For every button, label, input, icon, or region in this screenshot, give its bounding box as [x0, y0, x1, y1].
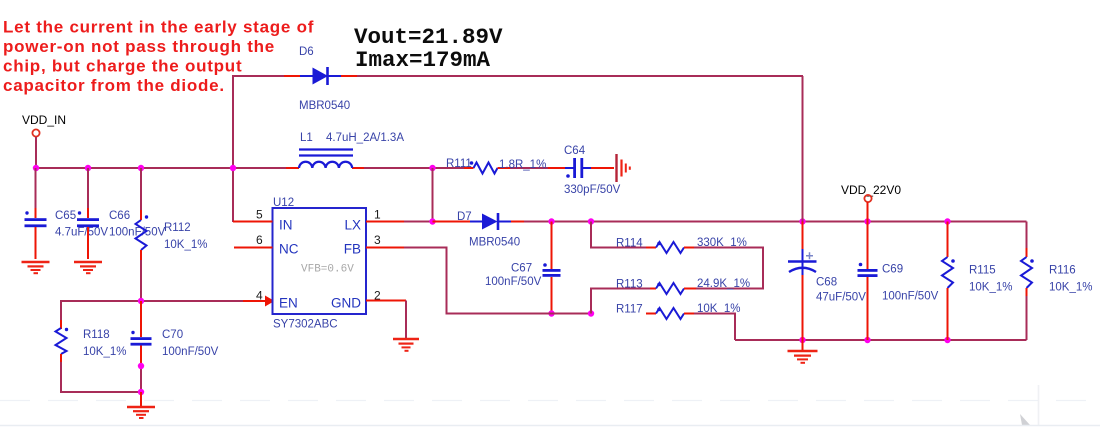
ground under C70 [127, 407, 155, 418]
wire bottom left net [61, 391, 141, 393]
junction dot rail at D6 branch [230, 165, 236, 171]
svg-text:330pF/50V: 330pF/50V [564, 184, 621, 196]
capacitor C69 [858, 222, 878, 341]
svg-text:R117: R117 [616, 304, 643, 316]
svg-text:1: 1 [374, 208, 381, 222]
junction dot C69 bottom [864, 337, 870, 343]
svg-text:IN: IN [279, 218, 293, 233]
svg-text:R114: R114 [616, 238, 643, 250]
wire red leads inductor [286, 167, 299, 169]
svg-text:10K_1%: 10K_1% [164, 239, 207, 251]
svg-text:C64: C64 [564, 145, 586, 157]
wire VDD_22V0 drop [867, 202, 869, 222]
wire EN net horizontal [61, 300, 245, 302]
svg-text:chip, but charge the output: chip, but charge the output [3, 57, 242, 76]
wire R117 right to bottom rail [694, 314, 735, 341]
capacitor C70 [131, 301, 152, 392]
svg-text:R118: R118 [83, 329, 110, 341]
ground under C65 [22, 262, 50, 273]
pin stub GND [366, 300, 406, 302]
svg-text:4: 4 [256, 289, 263, 303]
wire red lead left of D6 [284, 75, 300, 77]
svg-text:1.8R_1%: 1.8R_1% [499, 159, 546, 171]
faint grid line bottom edge [0, 425, 1100, 427]
resistor R111 [464, 161, 510, 173]
junction dot C67 top [548, 218, 554, 224]
faint grid line bottom dashed [0, 400, 1100, 402]
svg-text:R112: R112 [164, 222, 191, 234]
junction dot VDD_22V0 [864, 218, 870, 224]
wire R114 to R113 [684, 248, 763, 289]
svg-text:3: 3 [374, 233, 381, 247]
pin arrow EN [265, 296, 275, 307]
pin stub LX [366, 221, 405, 223]
wire VDD_IN drop [35, 137, 37, 168]
junction dot EN net at R112 [138, 298, 144, 304]
ground under U12 GND [393, 339, 419, 351]
svg-text:24.9K_1%: 24.9K_1% [697, 278, 750, 290]
svg-text:power-on not pass through the: power-on not pass through the [3, 37, 275, 56]
svg-text:C69: C69 [882, 264, 903, 276]
svg-text:MBR0540: MBR0540 [469, 237, 520, 249]
diode D7 [470, 213, 511, 230]
junction dot rail at LX branch [429, 165, 435, 171]
junction dot C67 bottom [548, 310, 554, 316]
svg-text:Imax=179mA: Imax=179mA [355, 47, 491, 73]
capacitor C65 [25, 168, 47, 259]
capacitor C67 [543, 222, 561, 314]
svg-text:SY7302ABC: SY7302ABC [273, 319, 338, 331]
svg-text:5: 5 [256, 208, 263, 222]
svg-text:R111: R111 [446, 158, 472, 170]
wire LX net [404, 168, 433, 222]
svg-text:L1: L1 [300, 132, 313, 144]
svg-text:Let the current in the early s: Let the current in the early stage of [3, 18, 314, 37]
faint vertical artifact bottom right [1038, 385, 1040, 426]
capacitor C68 polarized [788, 222, 817, 341]
wire bottom rail [735, 339, 1027, 341]
junction dot C68 top [799, 218, 805, 224]
svg-text:4.7uF/50V: 4.7uF/50V [55, 227, 108, 239]
svg-text:10K_1%: 10K_1% [969, 282, 1012, 294]
resistor R114 [646, 242, 696, 253]
junction dot R115 top [944, 218, 950, 224]
svg-text:R115: R115 [969, 265, 996, 277]
cursor artifact bottom [1020, 414, 1030, 425]
svg-text:VDD_IN: VDD_IN [22, 113, 66, 127]
svg-text:C67: C67 [511, 263, 532, 275]
svg-text:4.7uH_2A/1.3A: 4.7uH_2A/1.3A [326, 132, 404, 144]
wire LX to D7 [433, 221, 473, 223]
svg-text:VFB=0.6V: VFB=0.6V [301, 264, 354, 276]
annotation red note text [3, 18, 314, 96]
diode D6 [300, 67, 341, 85]
svg-text:C65: C65 [55, 210, 76, 222]
capacitor C64 [548, 158, 614, 178]
wire R113 left to FB node [591, 289, 650, 314]
resistor R117 [646, 308, 696, 319]
svg-text:47uF/50V: 47uF/50V [816, 292, 866, 304]
ground under C66 [74, 262, 102, 273]
wire ground stub below rail [802, 340, 804, 350]
terminal VDD_IN circle [32, 129, 39, 136]
svg-text:R116: R116 [1049, 265, 1076, 277]
wire red lead EN [243, 300, 266, 302]
svg-text:6: 6 [256, 233, 263, 247]
svg-text:D6: D6 [299, 46, 314, 58]
wire C70 ground stub [140, 392, 142, 406]
junction dot rail at R112 [138, 165, 144, 171]
svg-text:U12: U12 [273, 197, 294, 209]
svg-text:EN: EN [279, 296, 298, 311]
op-amp U12 box [273, 208, 367, 314]
resistor R115 [942, 222, 955, 341]
wire red lead right of D6 [340, 75, 357, 77]
svg-text:NC: NC [279, 242, 299, 257]
svg-text:GND: GND [331, 296, 361, 311]
wire GND pin drop [405, 301, 407, 339]
svg-text:C66: C66 [109, 210, 130, 222]
pin stub IN [233, 221, 273, 223]
wire FB net [404, 248, 591, 314]
svg-text:D7: D7 [457, 211, 472, 223]
wire red lead right of D7 [511, 221, 526, 223]
inductor L1 [299, 150, 353, 169]
svg-text:VDD_22V0: VDD_22V0 [841, 183, 901, 197]
svg-text:100nF/50V: 100nF/50V [485, 276, 542, 288]
junction dot R115 bottom [944, 337, 950, 343]
wire D6 right drop to rail [802, 76, 804, 222]
wire output rail y221 [524, 221, 1027, 223]
junction dot C68 bottom [799, 337, 805, 343]
junction dot R114 top [588, 218, 594, 224]
junction dot LX [429, 218, 435, 224]
resistor R118 [56, 300, 69, 393]
ground output rail [788, 351, 818, 363]
resistor R116 [1021, 222, 1034, 341]
junction dot C70 mid [138, 363, 144, 369]
svg-text:LX: LX [344, 218, 361, 233]
capacitor C66 [77, 168, 99, 259]
svg-text:100nF/50V: 100nF/50V [162, 346, 219, 358]
svg-text:C70: C70 [162, 329, 183, 341]
svg-text:10K_1%: 10K_1% [1049, 282, 1092, 294]
junction dot FB bottom [588, 310, 594, 316]
wire D6 top net [233, 76, 803, 222]
svg-text:C68: C68 [816, 277, 837, 289]
wire main rail VDD_IN y168 [35, 167, 562, 169]
svg-text:FB: FB [344, 242, 361, 257]
resistor R112 [136, 168, 149, 301]
terminal VDD_22V0 circle [864, 195, 871, 202]
pin stub NC [234, 247, 273, 249]
ground AGND rotated right of C64 [617, 154, 630, 182]
resistor R113 [646, 283, 696, 294]
wire R114 branch [591, 222, 650, 248]
svg-text:10K_1%: 10K_1% [83, 346, 126, 358]
svg-text:capacitor from the diode.: capacitor from the diode. [3, 76, 225, 95]
junction dot rail at VDD_IN [33, 165, 39, 171]
pin stub FB [366, 247, 405, 249]
junction dot C70 bottom [138, 389, 144, 395]
svg-text:MBR0540: MBR0540 [299, 100, 350, 112]
svg-text:100nF/50V: 100nF/50V [882, 291, 939, 303]
title Vout/Imax [354, 24, 503, 73]
junction dot rail at C66 [85, 165, 91, 171]
